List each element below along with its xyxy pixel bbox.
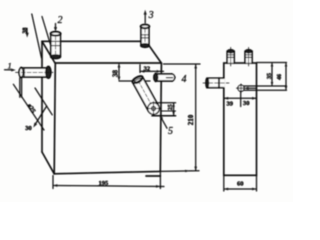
svg-text:39: 39 [227, 101, 234, 108]
label 3 arrow [144, 10, 147, 23]
svg-text:35: 35 [267, 73, 273, 79]
dim 210 top ext [164, 63, 201, 65]
svg-text:195: 195 [99, 180, 110, 187]
svg-text:5: 5 [168, 126, 173, 137]
dim 38 top-left extension A [32, 14, 42, 58]
pipe 3 [141, 25, 150, 48]
tank front face [55, 62, 161, 64]
pipe 5 tube [131, 75, 158, 112]
dim 32 line [140, 70, 164, 73]
phi25 leader slant long [13, 84, 44, 130]
side pipe4 band bottom / ext 46 [244, 89, 287, 91]
side view box [224, 63, 257, 175]
side pipe4 band top / ext 35 [244, 85, 287, 87]
tank bottom-left edge [42, 152, 54, 174]
dim 60 line [224, 188, 257, 191]
label 1 leader [5, 69, 16, 72]
svg-text:30: 30 [243, 100, 250, 107]
tank top-right edge [149, 46, 161, 63]
dim 32 tick [139, 65, 141, 73]
svg-text:3: 3 [148, 10, 154, 21]
svg-text:32: 32 [144, 65, 151, 72]
side circle (pipe 5 end) [237, 84, 246, 92]
dim 38 top-left arrow [26, 28, 29, 37]
label 2 arrow [54, 24, 57, 32]
pipe 1 lower stubs [19, 78, 21, 98]
dim 35 [271, 63, 274, 87]
svg-text:2: 2 [58, 15, 63, 26]
svg-text:25: 25 [168, 104, 174, 110]
dim 25: dim line [172, 103, 175, 116]
side stub A [227, 47, 235, 66]
tank back-left edge [41, 41, 43, 152]
svg-text:ø25: ø25 [26, 103, 38, 116]
dim 38 right ext [119, 80, 150, 82]
side stub B [245, 47, 253, 66]
tank back-top edge [42, 40, 140, 42]
dim 210 bottom ext [160, 170, 199, 173]
pipe 5 circle [147, 102, 161, 116]
dim 30 slant C [35, 88, 52, 115]
dim 46 [285, 63, 288, 91]
dim 25: ext lines [158, 102, 176, 104]
pipe 1 [16, 66, 54, 78]
pipe 2 [51, 32, 61, 59]
dim 195 left ext [52, 176, 54, 189]
dim 195 line [53, 184, 164, 188]
svg-text:38: 38 [112, 70, 120, 78]
side top ext right [257, 62, 287, 64]
svg-text:30: 30 [25, 125, 32, 132]
svg-text:38: 38 [23, 28, 29, 34]
svg-text:60: 60 [237, 180, 244, 187]
svg-text:210: 210 [187, 114, 195, 125]
pipe 4 [154, 73, 176, 81]
label 5 leader [159, 115, 167, 129]
dim 39/30 divider [240, 92, 242, 107]
svg-text:1: 1 [8, 61, 12, 71]
side pipe 1 [203, 78, 229, 89]
dim 38 right: line [118, 63, 121, 81]
dim 39/30 line [224, 97, 257, 100]
svg-text:4: 4 [182, 74, 187, 85]
dim 38 top-left extension B [42, 17, 55, 59]
tank top-left edge [42, 41, 55, 63]
side band arrow [244, 87, 257, 90]
dim 210 line [194, 64, 197, 171]
dim 195 right ext [159, 171, 161, 188]
dim 60 exts [223, 175, 225, 191]
svg-text:46: 46 [277, 74, 283, 80]
dim 30 slant D with arrow [33, 106, 46, 128]
